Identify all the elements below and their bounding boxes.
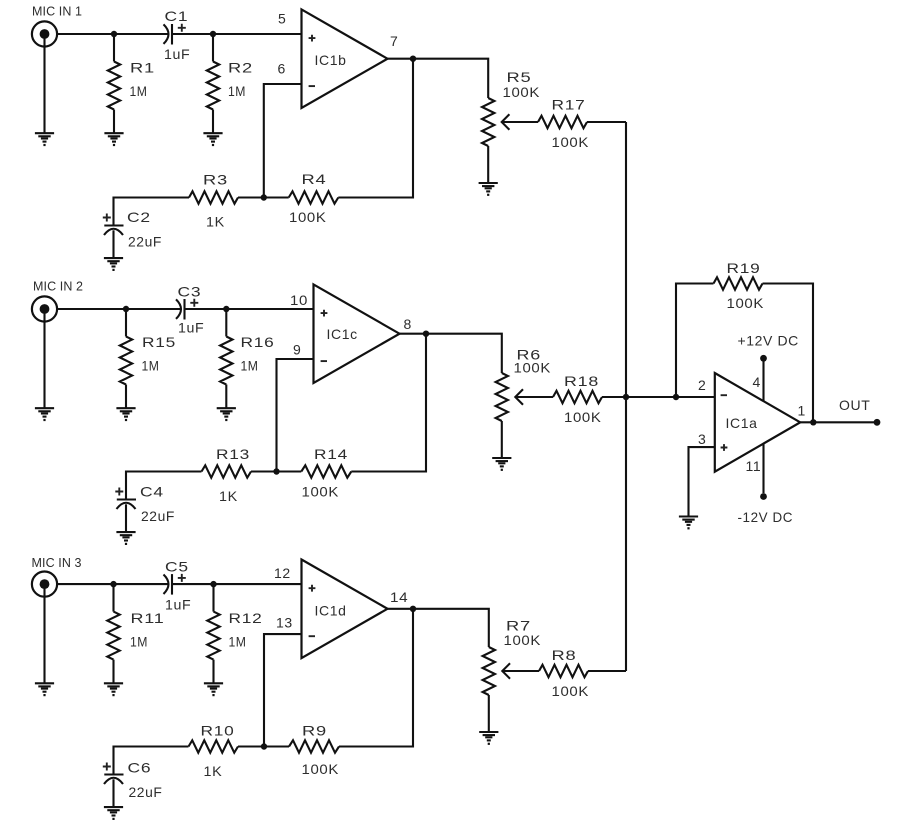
node OUT: [874, 419, 881, 426]
svg-text:IC1b: IC1b: [315, 52, 347, 68]
ground: [479, 732, 498, 745]
svg-text:13: 13: [276, 615, 293, 631]
ground: [679, 517, 698, 530]
op-amp IC1c: [314, 284, 400, 383]
svg-text:100K: 100K: [503, 84, 541, 100]
capacitor C3 1uF: [176, 299, 198, 320]
ground: [104, 683, 123, 696]
ground: [203, 133, 222, 146]
svg-text:2: 2: [698, 377, 706, 393]
svg-text:22uF: 22uF: [128, 234, 162, 250]
resistor R1 1M: [108, 34, 120, 133]
ground: [35, 683, 54, 696]
svg-text:1uF: 1uF: [164, 46, 190, 62]
potentiometer R7 100K: [483, 647, 510, 732]
svg-text:C2: C2: [127, 209, 151, 225]
svg-text:IC1c: IC1c: [327, 326, 358, 342]
resistor R11 1M: [107, 584, 119, 683]
resistor R14 100K: [301, 465, 351, 477]
node input 2a: [123, 306, 129, 312]
svg-text:100K: 100K: [552, 683, 590, 699]
capacitor C5 1uF: [164, 574, 186, 595]
svg-text:R9: R9: [302, 723, 327, 739]
svg-text:R5: R5: [507, 69, 532, 85]
node summing input: [673, 394, 679, 400]
capacitor C1 1uF: [164, 24, 186, 45]
ground: [104, 133, 123, 146]
svg-text:R15: R15: [142, 334, 176, 350]
capacitor C6 22uF: [103, 763, 124, 808]
wire: [587, 121, 626, 123]
wire: [351, 334, 426, 472]
wire summing bus: [625, 122, 627, 671]
svg-text:1K: 1K: [204, 763, 223, 779]
potentiometer R6 100K: [496, 373, 523, 458]
wire: [43, 588, 45, 683]
capacitor C4 22uF: [115, 488, 136, 533]
node input 1b: [210, 31, 216, 37]
wire: [172, 583, 302, 585]
node input 3b: [210, 581, 216, 587]
node R19 output: [810, 419, 816, 425]
terminal +12V: [760, 355, 767, 362]
wire: [238, 196, 289, 198]
svg-text:C4: C4: [140, 484, 164, 500]
resistor R12 1M: [207, 584, 219, 683]
connector J1 (MIC IN 1): [32, 21, 57, 46]
wire: [762, 444, 764, 493]
wire: [58, 33, 169, 35]
svg-text:R10: R10: [201, 723, 235, 739]
svg-text:R16: R16: [241, 334, 275, 350]
wire: [400, 334, 502, 373]
op-amp IC1b: [302, 9, 388, 108]
ground: [204, 683, 223, 696]
wire: [126, 472, 202, 500]
capacitor C2 22uF: [103, 214, 124, 259]
wire: [251, 470, 301, 472]
svg-text:14: 14: [390, 589, 408, 605]
svg-text:10: 10: [290, 292, 308, 308]
svg-text:1uF: 1uF: [178, 320, 204, 336]
svg-text:5: 5: [278, 10, 286, 26]
node feedback 1: [261, 194, 267, 200]
node output IC1b: [410, 56, 416, 62]
wire: [172, 33, 302, 35]
ground: [479, 183, 498, 196]
connector J2 (MIC IN 2): [32, 296, 57, 321]
wire: [339, 609, 413, 747]
ground: [104, 807, 123, 820]
resistor R17 100K: [538, 116, 587, 128]
svg-text:R2: R2: [228, 60, 253, 76]
svg-text:22uF: 22uF: [141, 508, 175, 524]
svg-text:100K: 100K: [727, 295, 765, 311]
wire: [602, 396, 715, 398]
svg-text:1K: 1K: [206, 214, 225, 230]
node input 3a: [110, 581, 116, 587]
svg-text:1M: 1M: [142, 358, 160, 374]
terminal -12V: [760, 493, 767, 500]
svg-text:IC1d: IC1d: [315, 603, 347, 619]
potentiometer R5 100K: [482, 98, 509, 183]
svg-text:100K: 100K: [302, 761, 340, 777]
svg-text:R13: R13: [216, 446, 250, 462]
svg-text:6: 6: [278, 61, 286, 77]
svg-text:MIC IN 1: MIC IN 1: [32, 5, 82, 19]
wire: [388, 609, 489, 647]
resistor R15 1M: [120, 309, 132, 408]
svg-text:1M: 1M: [130, 83, 148, 99]
wire: [515, 396, 553, 398]
svg-text:1M: 1M: [228, 83, 246, 99]
svg-text:1M: 1M: [229, 634, 247, 650]
svg-text:R19: R19: [727, 260, 761, 276]
resistor R4 100K: [289, 191, 339, 203]
ground: [492, 458, 511, 471]
node summing bus: [623, 394, 629, 400]
wire: [264, 634, 302, 746]
ground: [35, 133, 54, 146]
svg-text:100K: 100K: [552, 134, 590, 150]
svg-text:MIC IN 3: MIC IN 3: [32, 556, 82, 570]
wire: [388, 59, 489, 98]
svg-text:1: 1: [798, 403, 806, 419]
svg-text:3: 3: [698, 431, 706, 447]
op-amp IC1d: [302, 560, 388, 659]
resistor R13 1K: [202, 465, 252, 477]
resistor R3 1K: [189, 191, 238, 203]
node input 1a: [111, 31, 117, 37]
svg-text:C6: C6: [128, 760, 152, 776]
wire: [588, 670, 626, 672]
svg-text:R1: R1: [130, 60, 155, 76]
svg-text:R3: R3: [203, 172, 228, 188]
node output IC1c: [423, 331, 429, 337]
resistor R19 100K: [714, 277, 763, 289]
wire: [43, 313, 45, 408]
ground: [116, 532, 135, 545]
resistor R9 100K: [289, 740, 339, 752]
svg-text:1M: 1M: [130, 634, 148, 650]
svg-text:-12V DC: -12V DC: [738, 509, 794, 525]
svg-text:7: 7: [390, 33, 398, 49]
wire: [800, 421, 877, 423]
wire: [264, 84, 302, 198]
wire: [676, 284, 714, 398]
svg-text:100K: 100K: [564, 409, 602, 425]
svg-text:11: 11: [746, 458, 762, 474]
svg-text:100K: 100K: [514, 359, 552, 375]
svg-text:IC1a: IC1a: [726, 415, 758, 431]
svg-text:1K: 1K: [219, 488, 238, 504]
svg-text:22uF: 22uF: [129, 784, 163, 800]
svg-text:12: 12: [274, 565, 291, 581]
wire: [58, 583, 169, 585]
svg-text:R17: R17: [552, 97, 586, 113]
wire: [502, 121, 538, 123]
svg-text:100K: 100K: [289, 209, 327, 225]
wire: [238, 745, 289, 747]
wire: [502, 670, 539, 672]
wire: [114, 198, 190, 226]
svg-text:9: 9: [293, 342, 301, 358]
resistor R10 1K: [189, 740, 239, 752]
wire: [185, 308, 314, 310]
svg-text:R4: R4: [302, 171, 327, 187]
connector J3 (MIC IN 3): [32, 572, 57, 597]
wire: [762, 362, 764, 402]
svg-text:R18: R18: [564, 373, 599, 389]
svg-text:+12V DC: +12V DC: [738, 333, 799, 349]
svg-text:R8: R8: [552, 647, 577, 663]
wire: [763, 284, 814, 423]
ground: [104, 258, 123, 271]
svg-text:MIC IN 2: MIC IN 2: [33, 280, 83, 294]
wire: [689, 447, 715, 516]
svg-text:C5: C5: [165, 559, 189, 575]
wire: [338, 59, 413, 198]
ground: [116, 408, 135, 421]
svg-text:C1: C1: [165, 8, 189, 24]
resistor R8 100K: [539, 665, 588, 677]
svg-text:R12: R12: [229, 610, 263, 626]
svg-text:R14: R14: [314, 446, 348, 462]
node feedback 3: [261, 743, 267, 749]
node input 2b: [223, 306, 229, 312]
resistor R16 1M: [220, 309, 232, 408]
wire: [58, 308, 182, 310]
svg-text:100K: 100K: [504, 632, 542, 648]
resistor R18 100K: [553, 391, 602, 403]
svg-text:4: 4: [753, 374, 761, 390]
resistor R2 1M: [207, 34, 219, 133]
svg-text:1M: 1M: [241, 358, 259, 374]
wire: [277, 359, 314, 472]
wire: [43, 38, 45, 133]
ground: [217, 408, 236, 421]
ground: [35, 408, 54, 421]
svg-text:R11: R11: [131, 610, 165, 626]
svg-text:8: 8: [404, 316, 412, 332]
op-amp IC1a: [715, 373, 800, 472]
node feedback 2: [273, 468, 279, 474]
svg-text:100K: 100K: [302, 484, 340, 500]
node output IC1d: [410, 606, 416, 612]
svg-text:OUT: OUT: [839, 397, 870, 413]
wire: [114, 747, 189, 775]
svg-text:1uF: 1uF: [165, 596, 191, 612]
svg-text:C3: C3: [178, 284, 202, 300]
